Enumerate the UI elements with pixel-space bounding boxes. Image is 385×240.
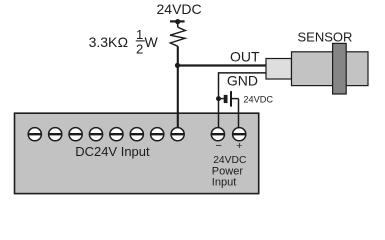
- svg-text:1: 1: [136, 27, 143, 42]
- svg-text:DC24V Input: DC24V Input: [75, 144, 150, 159]
- svg-text:3.3K: 3.3K: [89, 34, 118, 50]
- svg-text:OUT: OUT: [230, 48, 260, 64]
- svg-text:W: W: [145, 34, 159, 50]
- svg-text:Input: Input: [212, 177, 236, 189]
- svg-text:GND: GND: [227, 72, 258, 88]
- svg-text:Ω: Ω: [118, 34, 128, 50]
- svg-text:24VDC: 24VDC: [243, 94, 273, 104]
- svg-text:24VDC: 24VDC: [213, 155, 247, 166]
- svg-text:−: −: [216, 140, 222, 152]
- svg-text:24VDC: 24VDC: [157, 1, 202, 17]
- svg-text:+: +: [236, 140, 242, 152]
- svg-text:2: 2: [136, 42, 143, 57]
- svg-text:SENSOR: SENSOR: [298, 30, 353, 45]
